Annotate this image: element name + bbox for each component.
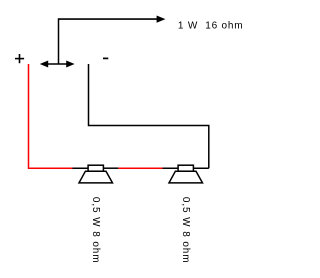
speaker LS1 xyxy=(79,165,113,183)
svg-text:0,5 W 8 ohm: 0,5 W 8 ohm xyxy=(180,197,191,264)
svg-text:0,5 W 8 ohm: 0,5 W 8 ohm xyxy=(90,197,101,264)
wire black terminal LS1 right xyxy=(103,167,119,169)
wire red between LS1 and LS2 xyxy=(118,167,162,169)
wire black negative: from minus down, across and down to LS2 xyxy=(89,64,209,168)
wire black terminal LS2 left xyxy=(163,167,180,169)
plus terminal symbol xyxy=(15,54,24,63)
wire black terminal LS1 left xyxy=(73,167,90,169)
wire black terminal LS2 right xyxy=(193,167,209,169)
wire red positive: down left side and along bottom to speaker LS1 xyxy=(29,64,73,168)
svg-text:1 W 16 ohm: 1 W 16 ohm xyxy=(178,21,244,32)
minus terminal symbol xyxy=(103,57,108,59)
wire vertical stem from top wire to tap arrow xyxy=(58,18,60,64)
arrowhead output direction xyxy=(157,16,166,23)
double arrow tap symbol xyxy=(40,61,75,68)
speaker LS2 xyxy=(169,165,203,183)
wire top horizontal (output to 16 ohm load) xyxy=(59,18,158,20)
